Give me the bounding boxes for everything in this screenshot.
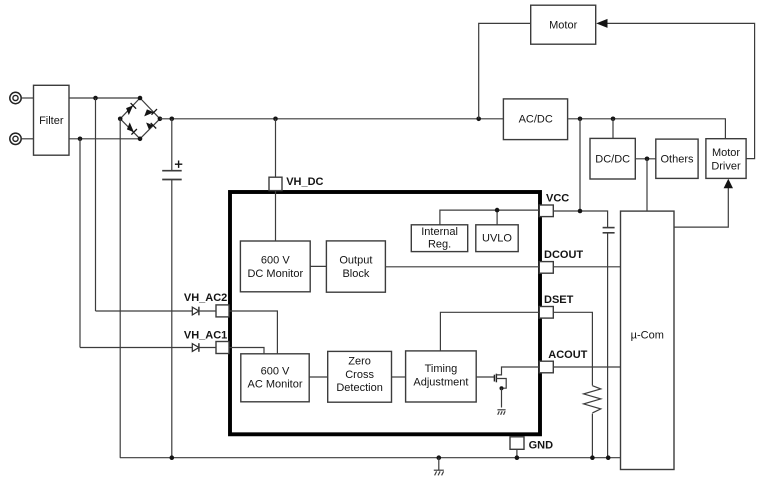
block Motor	[531, 5, 596, 44]
wire DCOUT to u-Com	[553, 266, 620, 268]
block Filter	[34, 85, 70, 155]
wire u-Com top feed	[646, 159, 648, 211]
wire DC/DC to Others	[635, 158, 656, 160]
svg-text:µ-Com: µ-Com	[631, 330, 664, 342]
wire to VH_AC1 diode	[80, 347, 193, 349]
wire tap down to VH_AC2	[95, 98, 97, 311]
block DC/DC	[590, 138, 635, 179]
svg-text:DC/DC: DC/DC	[595, 154, 630, 166]
bridge rectifier D1-D4	[118, 96, 162, 141]
svg-text:600 V: 600 V	[261, 365, 290, 377]
block Zero Cross Detection	[328, 351, 392, 402]
wire DC/DC drop	[612, 119, 614, 139]
svg-text:Zero: Zero	[348, 356, 371, 368]
pin DSET	[539, 307, 553, 319]
terminal J1 (AC input top)	[10, 92, 21, 103]
node VCC branch tap	[578, 117, 583, 122]
wire DSET internal to Timing Adjustment	[440, 312, 539, 351]
terminal J2 (AC input bottom)	[10, 133, 21, 144]
block Others	[656, 139, 698, 178]
wire DC Monitor to Output Block	[310, 265, 326, 267]
wire VCC branch drop	[579, 119, 581, 211]
wire bridge positive rail to AC/DC	[160, 118, 503, 120]
wire ACOUT to u-Com	[553, 366, 620, 368]
svg-text:DC Monitor: DC Monitor	[247, 268, 303, 280]
node rail capacitor C2	[606, 455, 611, 460]
pin VH_AC1	[216, 342, 229, 354]
pin GND	[510, 437, 524, 450]
pin DCOUT	[539, 262, 553, 274]
svg-text:UVLO: UVLO	[482, 233, 512, 245]
node rail resistor	[590, 455, 595, 460]
pin VCC	[539, 205, 553, 217]
ground (Q1 source)	[497, 410, 505, 415]
capacitor C1 (bulk, polarized)	[162, 119, 182, 458]
svg-text:DCOUT: DCOUT	[544, 249, 583, 261]
svg-text:Others: Others	[660, 154, 694, 166]
block Timing Adjustment	[406, 351, 477, 402]
wire Timing to Q1 gate	[476, 376, 494, 378]
svg-text:Adjustment: Adjustment	[413, 376, 468, 388]
ground rail	[120, 457, 621, 459]
diode D5 (VH_AC2)	[192, 307, 199, 316]
node tap VH_AC1 line	[78, 137, 83, 142]
svg-text:GND: GND	[529, 440, 554, 452]
svg-text:Output: Output	[339, 255, 372, 267]
ground (main rail)	[434, 458, 444, 476]
diode D6 (VH_AC1)	[192, 343, 199, 352]
wire diode to pin VH_AC1	[199, 347, 217, 349]
block UVLO	[476, 225, 518, 252]
wire VCC external to capacitor	[553, 211, 607, 228]
svg-text:Timing: Timing	[425, 363, 458, 375]
pin VH_AC2	[216, 305, 229, 317]
wire u-Com to Motor Driver	[674, 188, 728, 228]
svg-text:VH_DC: VH_DC	[286, 176, 323, 188]
wire Motor Driver to Motor	[607, 23, 755, 158]
svg-text:Internal: Internal	[421, 226, 458, 238]
arrowhead into Motor	[596, 19, 607, 28]
block 600V AC Monitor	[241, 354, 309, 402]
node capacitor tap	[170, 117, 175, 122]
wire GND pin to rail	[516, 449, 518, 457]
svg-text:Reg.: Reg.	[428, 239, 451, 251]
wire VH_DC internal	[275, 191, 277, 241]
svg-text:VH_AC1: VH_AC1	[184, 330, 227, 342]
svg-text:ACOUT: ACOUT	[548, 349, 587, 361]
node u-Com feed tap	[645, 157, 650, 162]
block Motor Driver	[706, 139, 746, 179]
wire Zero Cross to Timing	[391, 376, 406, 378]
arrowhead into Motor Driver	[724, 179, 733, 189]
capacitor C2 (VCC bypass)	[603, 228, 615, 458]
svg-text:Driver: Driver	[711, 161, 741, 173]
wire Output Block to DCOUT	[385, 266, 539, 268]
svg-text:Filter: Filter	[39, 115, 64, 127]
wire J2 to Filter	[21, 138, 33, 140]
block u-Com	[621, 211, 675, 469]
node rail ground symbol	[437, 455, 442, 460]
node VCC external junction	[578, 209, 583, 214]
wire bridge negative down to ground rail	[119, 119, 121, 458]
wire to VH_AC2 diode	[96, 310, 193, 312]
svg-text:AC Monitor: AC Monitor	[247, 379, 302, 391]
svg-text:Motor: Motor	[549, 20, 577, 32]
wire VH_DC drop	[275, 119, 277, 177]
node VCC net junction	[495, 208, 500, 213]
node rail GND pin	[515, 455, 520, 460]
wire DSET external down to resistor	[553, 312, 592, 385]
IC U1 outline	[230, 192, 540, 434]
wire J1 to Filter	[21, 97, 33, 99]
wire VH_AC1 internal to AC Monitor	[229, 348, 264, 354]
wire UVLO to VCC net	[496, 210, 498, 225]
block Internal Reg.	[411, 225, 467, 252]
node VH_DC tap	[273, 117, 278, 122]
block AC/DC	[503, 99, 567, 140]
wire diode to pin VH_AC2	[199, 310, 217, 312]
wire Filter bottom output to bridge bottom vertex	[69, 138, 140, 140]
svg-text:600 V: 600 V	[261, 255, 290, 267]
wire resistor to rail	[591, 414, 593, 458]
svg-text:VCC: VCC	[546, 192, 569, 204]
svg-text:Block: Block	[342, 268, 369, 280]
node tap VH_AC2 line	[93, 96, 98, 101]
pin VH_DC	[269, 177, 282, 190]
pin ACOUT	[539, 361, 553, 373]
svg-text:Motor: Motor	[712, 147, 740, 159]
node rail capacitor C1	[170, 455, 175, 460]
wire Filter top output to bridge top vertex	[69, 97, 140, 99]
block Output Block	[326, 241, 385, 292]
wire internal VCC net	[440, 210, 539, 225]
wire AC/DC output rail to Motor Driver top	[568, 119, 725, 139]
wire branch up to Motor	[479, 23, 531, 118]
svg-text:DSET: DSET	[544, 294, 574, 306]
resistor R1	[584, 386, 601, 413]
svg-text:Cross: Cross	[345, 369, 374, 381]
wire VH_AC2 internal to AC Monitor	[229, 311, 277, 354]
node DC/DC branch tap	[611, 117, 616, 122]
transistor Q1 (NMOS)	[494, 367, 539, 408]
wire AC Monitor to Zero Cross	[309, 376, 328, 378]
svg-text:AC/DC: AC/DC	[519, 113, 553, 125]
svg-text:VH_AC2: VH_AC2	[184, 292, 227, 304]
block 600V DC Monitor	[240, 241, 310, 292]
svg-text:Detection: Detection	[336, 382, 382, 394]
node motor branch tap	[476, 117, 481, 122]
wire tap down to VH_AC1	[79, 139, 81, 348]
